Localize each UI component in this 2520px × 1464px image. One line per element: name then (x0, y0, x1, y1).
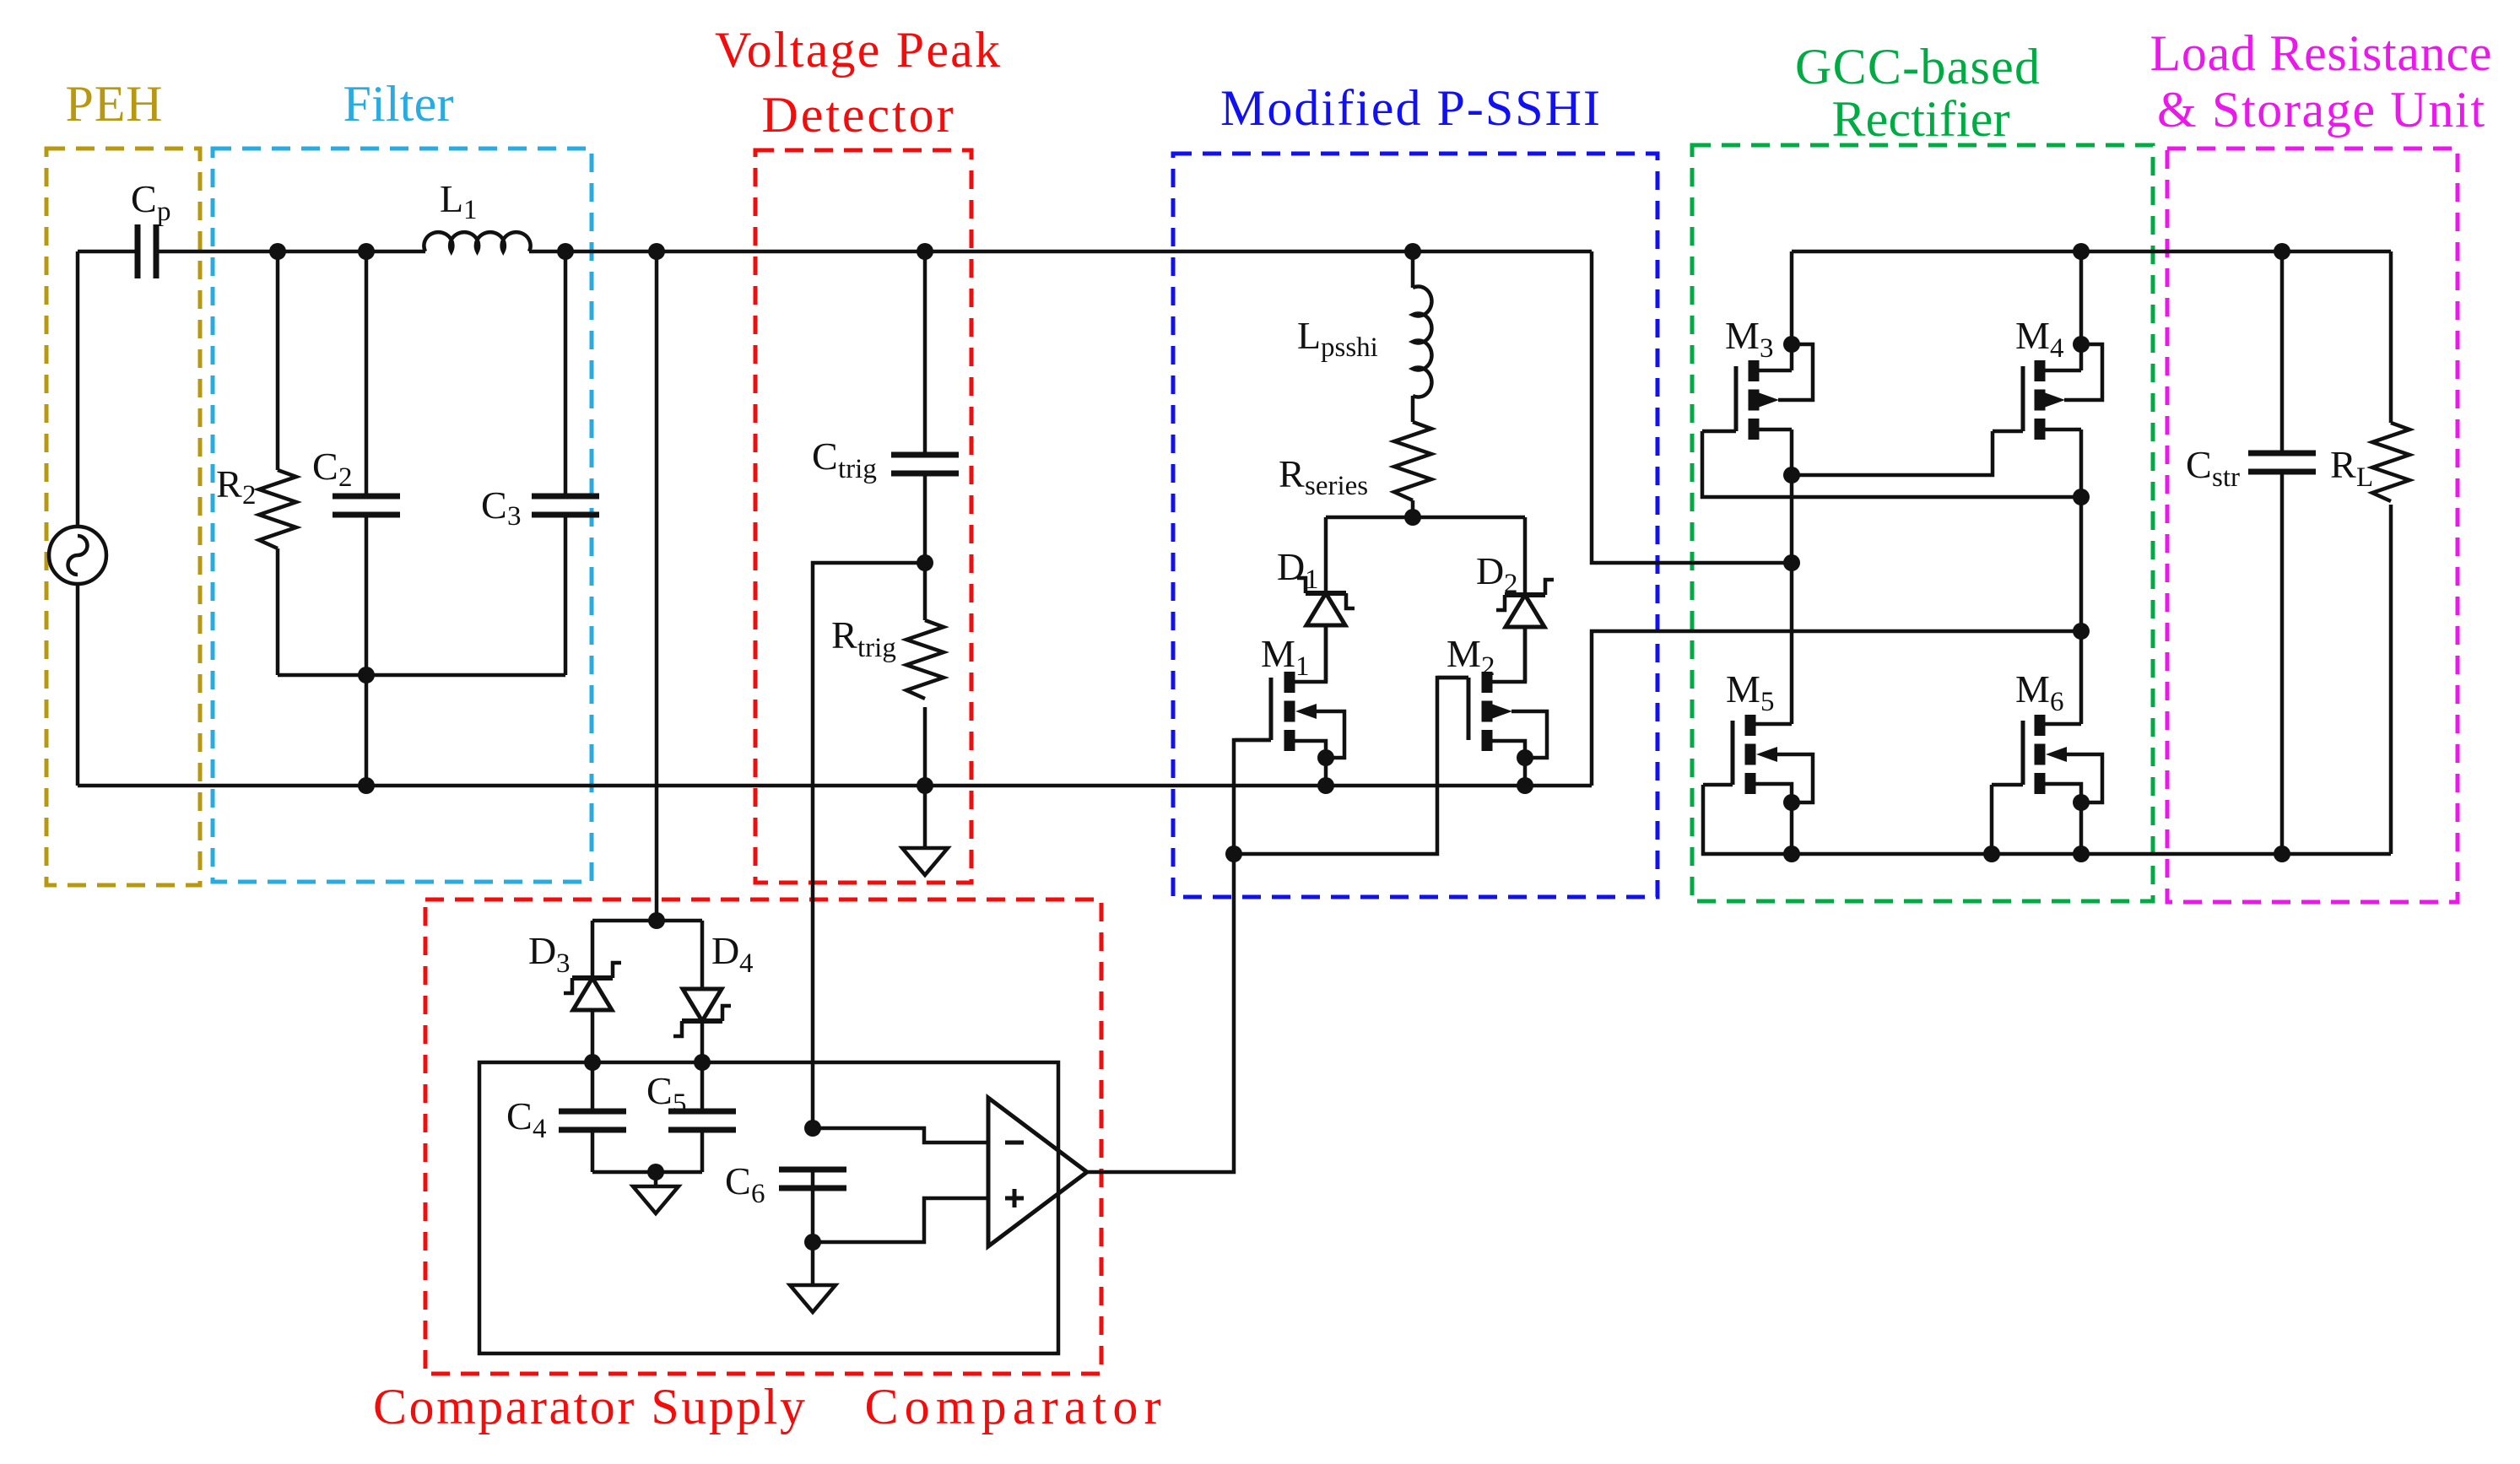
svg-text:M: M (2015, 314, 2050, 357)
svg-text:2: 2 (338, 462, 353, 493)
svg-text:M: M (1447, 632, 1481, 675)
svg-text:R: R (2330, 443, 2356, 486)
svg-text:R: R (831, 613, 857, 656)
svg-text:M: M (1726, 667, 1760, 710)
svg-text:1: 1 (1295, 651, 1310, 682)
svg-text:Detector: Detector (762, 87, 954, 143)
svg-text:R: R (216, 462, 242, 505)
svg-text:D: D (1476, 549, 1504, 592)
svg-text:4: 4 (739, 948, 754, 979)
svg-text:Comparator: Comparator (865, 1379, 1161, 1434)
svg-text:3: 3 (556, 948, 571, 979)
svg-text:4: 4 (533, 1114, 547, 1144)
svg-text:Load Resistance: Load Resistance (2150, 25, 2492, 81)
svg-text:L: L (2356, 462, 2373, 493)
svg-text:2: 2 (242, 480, 257, 511)
svg-text:D: D (1277, 545, 1305, 588)
svg-text:C: C (506, 1094, 533, 1137)
svg-text:str: str (2212, 462, 2240, 493)
svg-text:Filter: Filter (343, 76, 454, 132)
svg-text:L: L (440, 177, 463, 220)
svg-text:C: C (812, 435, 838, 478)
svg-text:C: C (2186, 443, 2212, 486)
svg-text:2: 2 (1504, 569, 1518, 599)
svg-text:PEH: PEH (66, 76, 163, 132)
svg-text:C: C (725, 1159, 751, 1202)
svg-text:M: M (1261, 632, 1295, 675)
svg-text:M: M (1725, 314, 1760, 357)
svg-text:& Storage Unit: & Storage Unit (2157, 82, 2485, 138)
svg-text:trig: trig (857, 633, 896, 663)
svg-text:4: 4 (2050, 333, 2064, 364)
svg-text:1: 1 (1305, 565, 1319, 595)
svg-text:6: 6 (751, 1179, 765, 1209)
svg-text:trig: trig (838, 454, 877, 484)
svg-text:p: p (157, 197, 171, 227)
svg-text:D: D (528, 929, 556, 972)
svg-text:C: C (131, 177, 157, 220)
svg-text:C: C (646, 1069, 673, 1112)
svg-text:6: 6 (2050, 687, 2064, 717)
svg-text:M: M (2015, 667, 2050, 710)
svg-text:series: series (1305, 471, 1368, 501)
svg-text:Comparator Supply: Comparator Supply (373, 1379, 805, 1434)
svg-text:C: C (481, 483, 507, 527)
svg-text:3: 3 (507, 501, 522, 532)
svg-text:R: R (1279, 452, 1305, 495)
svg-text:L: L (1297, 314, 1321, 357)
svg-text:5: 5 (1760, 687, 1775, 717)
svg-text:Voltage Peak: Voltage Peak (715, 22, 1000, 78)
svg-text:2: 2 (1481, 651, 1495, 682)
svg-text:1: 1 (463, 195, 478, 225)
svg-text:D: D (711, 929, 739, 972)
svg-text:psshi: psshi (1321, 332, 1378, 363)
svg-text:5: 5 (673, 1089, 687, 1119)
svg-text:Rectifier: Rectifier (1832, 91, 2010, 147)
svg-text:C: C (312, 445, 338, 488)
svg-text:3: 3 (1760, 333, 1774, 364)
svg-text:Modified P-SSHI: Modified P-SSHI (1220, 80, 1600, 136)
